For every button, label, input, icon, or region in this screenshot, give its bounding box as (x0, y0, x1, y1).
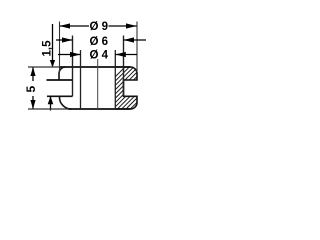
svg-text:Ø 6: Ø 6 (90, 36, 109, 48)
svg-text:Ø 4: Ø 4 (90, 50, 109, 62)
dim dia6 (56, 39, 73, 41)
dim 1,5 arrows bottom (48, 96, 54, 104)
dim 1,5 leader (52, 24, 54, 66)
centerline (97, 59, 99, 109)
svg-text:1,5: 1,5 (42, 40, 54, 57)
dia9 extensions (59, 22, 61, 73)
groove walls / dia6 extensions (72, 36, 74, 97)
hatch section right half (108, 50, 142, 140)
dim dia9 (60, 25, 90, 27)
bottom surface (68, 108, 131, 110)
dim dia4 (58, 54, 81, 56)
top surface (59, 66, 131, 68)
svg-text:5: 5 (24, 86, 38, 93)
body outline left (59, 67, 66, 80)
svg-text:Ø 9: Ø 9 (90, 21, 109, 33)
dim 5 (32, 67, 34, 81)
section outline right (115, 67, 137, 109)
hole walls / dia4 extensions (80, 50, 82, 109)
